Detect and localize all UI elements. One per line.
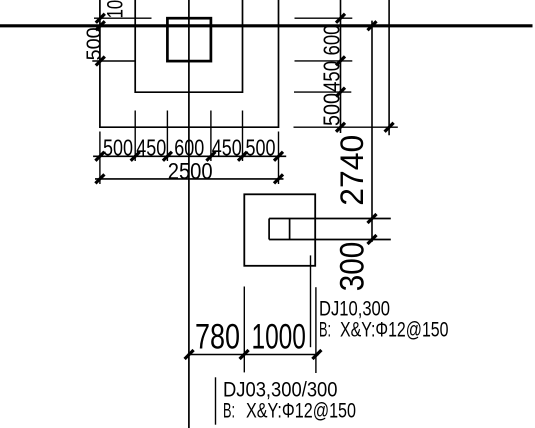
svg-text:2740: 2740 [334,135,370,206]
leader line DJ10 label [310,255,312,347]
tick [96,14,105,23]
svg-text:300: 300 [333,242,371,292]
footing DJ03 outer edge [100,0,279,127]
tick [336,123,345,132]
svg-text:100: 100 [103,0,128,18]
svg-text:X&Y:Φ12@150: X&Y:Φ12@150 [246,400,356,423]
wire ext left-chain bottom [92,60,135,62]
wire ext left-chain top [94,17,152,19]
tick [206,152,215,161]
tick [185,350,194,359]
dimension line 2500 [95,178,284,180]
dimension line 2740/300 [371,21,373,242]
tick [163,152,172,161]
tick [336,56,345,65]
tick [240,350,249,359]
tick [368,214,377,223]
tick [95,152,104,161]
svg-text:500: 500 [103,135,133,161]
tick [274,174,283,183]
svg-text:1000: 1000 [251,318,306,357]
svg-text:2500: 2500 [168,158,213,184]
column 600x600 [167,18,211,61]
tick [96,57,105,66]
wire ext right col-bottom [295,60,353,62]
footing DJ03 step edge [135,0,242,92]
column 300x300 right edge [289,219,291,240]
wire ext outer-left [99,132,101,185]
wire ext footing-right [315,287,317,373]
wire ext footing-left [243,287,245,373]
leader line DJ03 label [215,377,217,424]
footing DJ10 outline [244,194,315,265]
svg-text:450: 450 [319,61,345,92]
tick [238,152,247,161]
wire ext right step-bottom [294,91,351,93]
dimension line 780/1000 [187,354,318,356]
tick [96,21,105,30]
svg-text:780: 780 [195,318,240,357]
dimension chain line 500/450/600/450/500 [93,155,286,157]
wire ext right col-top [295,17,353,19]
tick [385,123,394,132]
wire ext col-left [166,111,168,162]
svg-text:B:: B: [223,400,235,423]
svg-text:500: 500 [84,27,106,60]
wire ext step-left [134,111,136,162]
tick [336,88,345,97]
tick [274,152,283,161]
tick [131,152,140,161]
svg-text:X&Y:Φ12@150: X&Y:Φ12@150 [340,318,449,341]
beam bottom edge [269,239,391,241]
beam top edge [269,218,391,220]
tick [95,174,104,183]
svg-text:450: 450 [136,135,166,161]
tick [368,235,377,244]
wire ext outer-right [278,132,280,185]
wire vertical axis line [188,0,190,428]
tick [336,14,345,23]
svg-text:450: 450 [212,135,242,161]
tick [312,350,321,359]
tick [368,21,377,30]
column 300x300 left edge [268,219,270,240]
svg-text:B:: B: [319,318,331,341]
dimension line right chain 600/450/500 [340,0,342,133]
svg-text:600: 600 [174,135,204,161]
wire horizontal axis line [0,24,533,27]
wire ext right footing-bottom [294,126,398,128]
wire ext step-right [242,111,244,162]
svg-text:600: 600 [319,25,345,56]
svg-text:500: 500 [319,93,345,126]
wire ext col-right [210,111,212,162]
svg-text:DJ03,300/300: DJ03,300/300 [223,378,338,401]
svg-text:500: 500 [246,135,276,161]
wire vertical ref line [388,0,390,135]
svg-text:DJ10,300: DJ10,300 [319,298,390,321]
